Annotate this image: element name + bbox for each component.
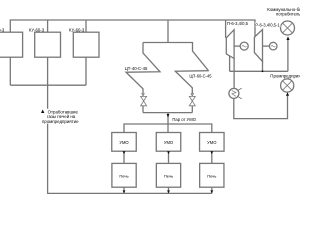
wire riser KU3 (85, 20, 87, 32)
wire UMO1 to furnace1 (123, 151, 125, 163)
fan inner curve (232, 91, 236, 97)
fan circle (дымосос) (229, 88, 239, 98)
svg-text:УМО: УМО (207, 140, 217, 145)
wire exhaust gas main down x=47.6 (47, 85, 49, 193)
consumer industry crossed circle (281, 79, 294, 92)
wire KU2 down (47, 57, 49, 85)
furnace Pech1 box (112, 163, 136, 187)
boiler KU3 (КУ-60-3) (73, 32, 99, 57)
svg-text:УМО: УМО (119, 140, 129, 145)
wire steam header y=112.6 (143, 112, 192, 114)
wire steam drop to UMO2 x=168 (167, 113, 169, 133)
svg-text:П-6-3,4/0,5: П-6-3,4/0,5 (227, 21, 249, 26)
wire furnace2 down (168, 187, 170, 193)
arrow UMO3 outlet (210, 151, 213, 154)
wire UMO3 to furnace3 (211, 151, 213, 163)
wire UMO2 to furnace2 (168, 151, 170, 163)
fan blade tick bottom (238, 97, 241, 99)
svg-text:промпредприятие: промпредприятие (42, 119, 79, 124)
svg-text:Печь: Печь (119, 174, 128, 179)
wire up to communal consumer (287, 40, 289, 72)
generator G2 tilde (271, 46, 275, 47)
wire turbine R exhaust (262, 61, 264, 71)
arrow exhaust gas up (41, 110, 44, 114)
label background exhaust text (47, 109, 83, 124)
wire generator G2 shaft (263, 45, 270, 47)
wire UMO distribution header y=124 (124, 124, 212, 133)
consumer communal crossed circle (281, 21, 295, 35)
boiler KU1 (КУ-60-3, clipped at left edge) (0, 32, 23, 57)
valve V2 arrow (191, 93, 194, 96)
wire furnace3 down (211, 187, 213, 193)
arrow into industry consumer (up) (286, 92, 289, 96)
wire riser KU2 (47, 20, 49, 32)
arrow furnace3 to header (210, 190, 213, 193)
wire drop to turbine P x=225.6 (225, 20, 227, 38)
superheater right coil part (126, 43, 160, 95)
wire turbine P exhaust to fan (233, 59, 235, 89)
valve V1 bowtie (141, 96, 147, 105)
svg-text:Пар от УМО: Пар от УМО (172, 117, 196, 122)
label background R turbine (255, 23, 281, 27)
wire valve V1 down (142, 106, 144, 113)
boiler KU2 (КУ-60-3) (35, 32, 61, 57)
svg-text:Промпредприятие: Промпредприятие (270, 73, 300, 78)
svg-text:КУ-60-3: КУ-60-3 (69, 27, 85, 32)
wire main steam header y=20 (10, 20, 255, 37)
apparatus UMO3 box (200, 133, 225, 152)
wire fan outlet to industry (234, 96, 288, 119)
wire turbine P tail left (229, 56, 231, 72)
svg-text:потребитель: потребитель (276, 12, 300, 17)
svg-text:ЦП-60-С-45: ЦП-60-С-45 (189, 73, 212, 78)
arrow furnace2 to header (167, 190, 170, 193)
furnace Pech3 box (200, 163, 224, 187)
turbine R (Р-6-3,4/0,5-1) trapezoid (254, 30, 262, 62)
wire bottom flue header y=193.4 (47, 192, 212, 194)
wire superheater riser x=168 (167, 20, 169, 43)
wire KU1 down (9, 57, 11, 85)
wire furnace1 down (123, 187, 125, 193)
svg-text:ЦТ-40-С-45: ЦТ-40-С-45 (125, 66, 148, 71)
arrow UMO2 outlet (167, 151, 170, 154)
arrow UMO1 outlet (123, 151, 126, 154)
svg-text:УМО: УМО (164, 140, 174, 145)
wire heat supply header y=71.3 (230, 70, 288, 72)
fan blade tick top (238, 88, 241, 90)
wire valve V2 down (191, 106, 193, 113)
generator G2 circle (269, 42, 277, 50)
arrow into communal consumer (up) (286, 36, 289, 40)
svg-text:Печь: Печь (164, 174, 173, 179)
furnace Pech2 box (156, 163, 180, 187)
turbine P (П-6-3,4/0,5) trapezoid (226, 30, 234, 59)
svg-text:КУ-60-3: КУ-60-3 (0, 27, 5, 32)
svg-text:Печь: Печь (207, 174, 216, 179)
wire KU3 down (85, 57, 87, 85)
valve V2 bowtie (189, 96, 195, 105)
generator G1 tilde (242, 46, 247, 47)
svg-text:Р-6-3,4/0,5-1: Р-6-3,4/0,5-1 (255, 23, 280, 28)
wire gas collector y=85 (10, 84, 86, 86)
valve V1 arrow (142, 93, 145, 96)
svg-text:КУ-60-3: КУ-60-3 (29, 27, 45, 32)
arrow furnace1 to header (123, 190, 126, 193)
arrow steam to UMO (down) (167, 114, 170, 118)
superheater left coil ЦТ-40-С-45 (143, 43, 208, 95)
wire generator G1 shaft (234, 45, 240, 47)
junction dot turbine R exhaust (262, 70, 264, 72)
generator G1 circle (240, 42, 248, 50)
apparatus UMO1 box (112, 133, 137, 152)
apparatus UMO2 box (156, 133, 181, 152)
